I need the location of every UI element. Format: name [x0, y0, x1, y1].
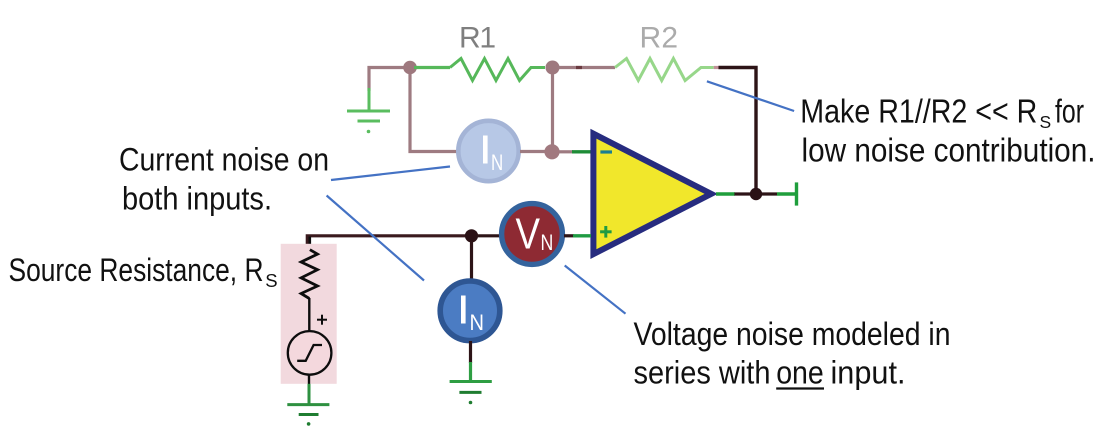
svg-text:one: one [776, 355, 824, 391]
wire source to node D (black) [307, 236, 466, 245]
voltage noise source VN [502, 204, 563, 265]
svg-text:R1: R1 [459, 22, 496, 55]
ground (below IN2) [450, 380, 492, 383]
output terminal bar [795, 182, 798, 205]
wire RS to source circle [308, 298, 310, 331]
svg-text:N: N [470, 310, 485, 335]
wire op-amp output [716, 192, 735, 195]
wire node D to VN (black) [477, 234, 500, 237]
wire node A to R1 (green) [414, 66, 450, 69]
svg-text:N: N [491, 150, 503, 175]
source (ramp symbol) [288, 331, 332, 375]
wire ground stub to node A (rosy) [369, 68, 410, 92]
wire node D down to IN2 (black) [470, 241, 473, 279]
svg-text:for: for [1055, 93, 1084, 130]
wire node B to R2 (rosy) [558, 66, 615, 69]
wire VN to non-inverting input [564, 234, 574, 237]
annotation line D (VN to voltage text) [565, 266, 626, 314]
inverting input marker (minus) [600, 150, 612, 153]
non-inverting input marker (plus) [600, 230, 612, 233]
resistor R2 [615, 59, 714, 81]
wire node C to inverting input [559, 150, 573, 153]
svg-text:S: S [265, 270, 277, 291]
ground (top left) [347, 88, 390, 121]
current noise source IN1 (inverting input, light blue) [458, 121, 518, 181]
op-amp U1 [590, 129, 717, 259]
current noise source IN2 (non-inverting input, blue) [440, 281, 500, 341]
wire node A down to IN1 (rosy) [410, 74, 461, 152]
svg-text:Make R1//R2 << R: Make R1//R2 << R [800, 93, 1037, 130]
output node junction dot [750, 188, 762, 200]
wire R2 to output node (feedback, dark) [714, 66, 719, 69]
node B junction dot [546, 61, 560, 75]
annotation line B (current noise to IN2) [327, 196, 424, 281]
annotation line A (current noise to IN1) [331, 167, 450, 181]
resistor RS [301, 250, 317, 299]
wire IN2 to ground [469, 341, 472, 363]
wire output to terminal (green) [777, 192, 796, 195]
svg-text:both inputs.: both inputs. [122, 181, 272, 217]
svg-text:Current noise on: Current noise on [119, 142, 329, 178]
svg-text:Source Resistance, R: Source Resistance, R [9, 252, 264, 288]
svg-text:low noise contribution.: low noise contribution. [802, 132, 1096, 169]
polarity plus sign [317, 319, 327, 321]
resistor R1 [450, 59, 545, 81]
svg-text:V: V [516, 210, 541, 259]
ground (below source) [287, 403, 329, 406]
node A junction dot [403, 61, 417, 75]
svg-text:N: N [541, 230, 554, 255]
annotation line C (R2 to make text) [707, 81, 794, 111]
node C junction dot [544, 144, 559, 159]
wire node B down to node C (rosy) [551, 74, 554, 146]
svg-text:Voltage noise modeled in: Voltage noise modeled in [634, 316, 951, 352]
svg-text:R2: R2 [640, 22, 679, 55]
svg-text:S: S [1040, 112, 1052, 132]
source resistance RS block (pink background) [281, 244, 337, 384]
svg-text:series with: series with [634, 355, 771, 391]
svg-text:input.: input. [831, 355, 906, 391]
wire source circle to ground [308, 375, 310, 386]
wire IN1 to node C (rosy) [520, 150, 546, 153]
node D junction dot [465, 229, 478, 242]
